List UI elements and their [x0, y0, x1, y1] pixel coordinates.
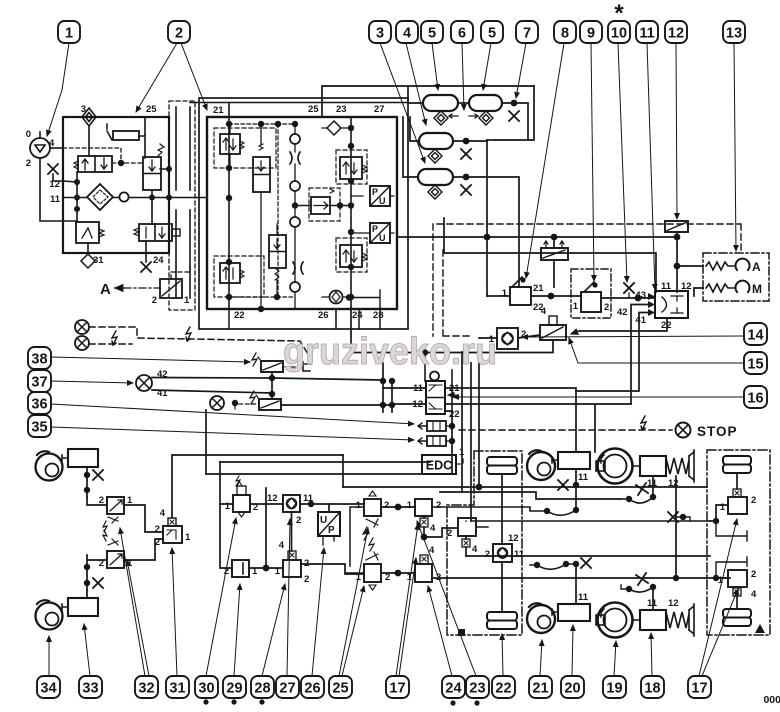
svg-text:22: 22 [234, 310, 245, 321]
callout 3 [369, 21, 391, 43]
drain diamond T1 [434, 111, 448, 125]
leader 25 a [339, 528, 368, 676]
tank feed riser [322, 86, 534, 117]
callout 24 [442, 676, 465, 698]
wire diamond down [88, 126, 90, 156]
svg-text:19: 19 [606, 681, 622, 697]
wire 25b right [381, 572, 415, 574]
svg-text:33: 33 [82, 681, 98, 697]
svg-text:16: 16 [747, 391, 763, 407]
valve 25a [356, 491, 390, 540]
mid dashed vertical [277, 124, 279, 298]
svg-text:4: 4 [160, 508, 166, 519]
svg-text:30: 30 [198, 681, 214, 697]
callout 18 [641, 676, 664, 698]
flash symbol stop [641, 416, 646, 430]
callout 7 [516, 21, 538, 43]
shuttle up wire [172, 455, 343, 518]
air dryer box [63, 117, 169, 253]
wire 23a right [466, 555, 710, 557]
callout 22 [492, 676, 515, 698]
front cylinder 1 [68, 449, 98, 467]
svg-text:1: 1 [502, 288, 508, 299]
svg-text:26: 26 [318, 310, 329, 321]
dot 36 [232, 400, 238, 406]
svg-text:20: 20 [564, 681, 580, 697]
front disc brake 2 [36, 600, 63, 629]
svg-text:24: 24 [352, 310, 363, 321]
valve 29 [224, 560, 258, 577]
callout 23 [466, 676, 489, 698]
rear disc brake top [527, 450, 555, 480]
wire to coupling bl [530, 564, 576, 565]
callout 12 [665, 21, 687, 43]
long bus y487 [343, 486, 707, 488]
check circle mid [290, 181, 300, 191]
svg-text:4: 4 [751, 589, 757, 600]
wire A valve up [171, 265, 190, 279]
T2 bleed X [509, 111, 519, 121]
EDC box [422, 447, 465, 474]
valve2 to shuttle [124, 539, 163, 560]
leader 27 [287, 519, 290, 676]
bus y253 [444, 253, 656, 292]
T4 left link [403, 117, 418, 177]
svg-text:EDC: EDC [426, 459, 452, 473]
BL overflow valve [220, 263, 244, 283]
svg-text:000: 000 [763, 694, 780, 706]
leader 25 b [342, 586, 364, 676]
front cylinder 2 [68, 598, 98, 616]
svg-text:U: U [379, 233, 386, 243]
svg-text:5: 5 [428, 26, 436, 42]
block top bus [229, 123, 295, 125]
svg-text:2: 2 [304, 574, 309, 585]
svg-text:1: 1 [407, 572, 413, 583]
valve 24a [407, 499, 442, 534]
svg-text:1: 1 [185, 532, 191, 543]
dashed pilot line [112, 162, 143, 164]
drain diamond 31 [81, 254, 95, 268]
PU converter bottom [370, 223, 390, 243]
TL valve wires [229, 124, 231, 168]
svg-text:4: 4 [541, 306, 547, 317]
callout 17a [386, 676, 409, 698]
flash symbol 1 [112, 331, 117, 345]
leader 11 [647, 43, 655, 290]
bottom circle diamond [330, 291, 343, 304]
hand brake lever valve [502, 277, 545, 313]
levelling valve left [485, 533, 525, 562]
leader 2 left [136, 43, 177, 112]
wire 12 down [676, 232, 678, 292]
pilot port right [172, 229, 180, 236]
leader 17b a [699, 519, 737, 676]
leader 31 [172, 548, 177, 676]
air tank T4 [418, 169, 453, 185]
tank T1-T2 link [458, 102, 469, 104]
leader 24 [428, 586, 452, 676]
drain diamond T2 [479, 111, 493, 125]
leader 2 right [181, 43, 207, 110]
svg-text:12: 12 [508, 533, 519, 544]
wire 9 to X [601, 297, 655, 299]
svg-text:2: 2 [175, 26, 183, 42]
callout 14 [744, 323, 767, 345]
svg-text:2: 2 [436, 500, 441, 511]
callout 35 [28, 415, 51, 437]
callout 34 [37, 676, 60, 698]
vertical 462 [461, 352, 463, 492]
port 21 drop [228, 103, 230, 118]
leader 14 [522, 336, 744, 337]
diamond top right [327, 121, 341, 135]
leader to compressor [47, 43, 69, 136]
svg-text:2: 2 [224, 566, 229, 577]
bracket symbol [303, 362, 311, 371]
dashed lamp line 2 [89, 343, 132, 345]
levelling valve rt [720, 489, 757, 514]
warning lamp 2 [75, 336, 89, 350]
outer enclosure of protection block [199, 98, 408, 329]
wire valve8top [553, 237, 555, 287]
svg-text:2: 2 [152, 295, 157, 306]
svg-text:2: 2 [604, 302, 609, 313]
air tank T2 [469, 95, 502, 111]
leader 7 [516, 43, 526, 98]
wire M row [694, 288, 703, 296]
svg-text:18: 18 [644, 681, 660, 697]
solenoid valve V1 [74, 156, 112, 172]
BL dashed box [214, 256, 264, 297]
air bellows right top [723, 456, 751, 473]
spring top [259, 144, 263, 150]
callout 21 [529, 676, 552, 698]
muffler dots [449, 423, 455, 429]
T3 bleed X [461, 149, 471, 159]
leader 17a b [399, 558, 416, 676]
svg-text:14: 14 [747, 328, 763, 344]
wire 29 to 28 [249, 567, 283, 569]
svg-text:21: 21 [532, 681, 548, 697]
svg-text:26: 26 [304, 681, 320, 697]
svg-text:12: 12 [668, 26, 684, 42]
callout 29 [223, 676, 246, 698]
svg-text:37: 37 [31, 375, 47, 391]
valve 28 [275, 540, 310, 585]
foot valve out 22 [445, 411, 452, 474]
row 36 wire [281, 404, 392, 406]
svg-text:1: 1 [275, 566, 281, 577]
svg-text:27: 27 [374, 104, 385, 115]
leader 5 [432, 43, 438, 90]
svg-text:M: M [752, 282, 762, 296]
svg-text:24: 24 [153, 255, 164, 266]
dashed channel between blocks [169, 101, 195, 310]
svg-text:1: 1 [65, 26, 73, 42]
leader 34 [48, 636, 50, 676]
vertical x452 upper [451, 370, 453, 411]
hose coupling top-right [620, 496, 653, 503]
leader 37 [51, 381, 133, 383]
T2 dot [511, 100, 518, 107]
arrow into foot valve [448, 394, 458, 396]
svg-text:32: 32 [138, 681, 154, 697]
supply line channel to tanks [190, 102, 408, 104]
dot 42 [635, 295, 642, 302]
clamp X bottom [636, 573, 648, 585]
T4 dot [463, 174, 470, 181]
BR overflow valve [340, 245, 367, 267]
svg-text:23: 23 [336, 104, 347, 115]
wire 25a right [381, 506, 415, 508]
right bus vertical [350, 117, 352, 309]
svg-text:41: 41 [635, 315, 646, 326]
wire cyl1 down [86, 467, 88, 497]
callout 9 [580, 21, 602, 43]
wire unloader down + bleed X 24 [145, 241, 147, 262]
air bellows right bottom [723, 609, 751, 626]
leader 29 [234, 584, 240, 676]
row 37 wire 41 [152, 390, 272, 393]
left bus vertical [228, 117, 230, 309]
callout 19 [603, 676, 626, 698]
svg-text:15: 15 [747, 357, 763, 373]
wire 22 to valve15 [579, 318, 667, 331]
callout 10 [608, 21, 630, 43]
svg-text:STOP: STOP [697, 424, 738, 439]
svg-text:43: 43 [635, 290, 646, 301]
center valve wires [295, 205, 351, 207]
svg-text:P: P [372, 187, 378, 197]
leader 38 [51, 357, 250, 362]
callout 30 [195, 676, 218, 698]
svg-text:11: 11 [661, 281, 672, 292]
main bus wire [63, 197, 207, 199]
black triangle [755, 624, 765, 633]
svg-text:2: 2 [751, 495, 756, 506]
svg-text:A: A [100, 281, 111, 298]
supply bus y237 [397, 236, 677, 238]
T3 right [453, 140, 487, 142]
spring left [74, 161, 78, 169]
svg-text:9: 9 [587, 26, 595, 42]
drain diamond top [82, 108, 96, 126]
svg-text:28: 28 [254, 681, 270, 697]
svg-text:17: 17 [691, 681, 707, 697]
spring brake chamber top [596, 449, 633, 484]
svg-text:22: 22 [495, 681, 511, 697]
valve rb wires [716, 557, 747, 578]
svg-text:2: 2 [296, 515, 301, 526]
bleed X bl [581, 558, 591, 568]
left bracket to valves 29-30 [220, 504, 233, 568]
svg-text:11: 11 [578, 592, 589, 603]
spring top [158, 144, 164, 156]
wire valve2 left [87, 555, 107, 590]
TR overflow valve [340, 157, 367, 179]
svg-text:12: 12 [668, 598, 679, 609]
leader 28 [262, 584, 285, 676]
wire 25a left [345, 507, 364, 573]
wire 14-15 [518, 335, 540, 338]
PU wires [351, 196, 394, 233]
bleed X [558, 480, 568, 490]
block bottom port 24 link [349, 290, 380, 308]
callout 31 [166, 676, 189, 698]
riser to lever valve [486, 140, 488, 296]
wire 15 bottom [351, 340, 553, 353]
leader 10 [618, 43, 627, 282]
callout 33 [79, 676, 102, 698]
vertical 206 [205, 410, 207, 474]
svg-text:3: 3 [376, 26, 384, 42]
solenoid valve 38 [252, 353, 283, 372]
T1 left link [408, 86, 423, 103]
svg-text:38: 38 [31, 352, 47, 368]
wire A row [677, 265, 703, 267]
callout 36 [28, 392, 51, 414]
dashed from valve38 [285, 366, 299, 368]
leader 5b [483, 43, 491, 90]
throttle top [290, 152, 300, 164]
leader 17b b [702, 589, 738, 676]
svg-text:P: P [328, 525, 335, 536]
T2 right link [502, 103, 528, 140]
leader 6 [462, 43, 464, 110]
bottom bus [229, 296, 295, 298]
leader 12 [676, 43, 677, 219]
riser right down [495, 86, 534, 140]
svg-text:25: 25 [146, 104, 157, 115]
svg-text:U: U [320, 515, 327, 526]
mid verticals [383, 363, 392, 412]
svg-text:25: 25 [332, 681, 348, 697]
svg-text:12: 12 [412, 399, 423, 410]
callout 26 [301, 676, 324, 698]
hose coupling bottom-left [534, 561, 569, 569]
wires 2-2 upper [260, 124, 262, 309]
channel inner walls [176, 107, 190, 298]
svg-text:10: 10 [611, 26, 627, 42]
flash symbol 2 [186, 327, 191, 341]
clamp X top [636, 483, 648, 495]
wire compressor to dryer [50, 147, 63, 149]
muffler 2 [418, 436, 446, 446]
leader 36 [51, 404, 414, 424]
dot under 23 [474, 700, 479, 705]
svg-text:5: 5 [488, 26, 496, 42]
callout 25 [329, 676, 352, 698]
solenoid component 12 [665, 221, 688, 232]
svg-text:2: 2 [521, 329, 526, 340]
heater switch [107, 124, 112, 140]
leader 33 [84, 624, 90, 676]
svg-text:31: 31 [169, 681, 185, 697]
pressure regulator [76, 222, 104, 243]
wire row y510 [432, 507, 547, 511]
wire heater [139, 135, 145, 158]
callout 16 [744, 386, 767, 408]
cyl bottom wire up [575, 564, 577, 604]
callout 37 [28, 370, 51, 392]
wires lower mid [276, 224, 278, 297]
leader 32 a [120, 528, 145, 676]
TL overflow valve [220, 134, 244, 154]
svg-text:4: 4 [403, 26, 411, 42]
air tank T3 [419, 133, 453, 149]
svg-text:1: 1 [356, 500, 362, 511]
wire UP up [328, 504, 330, 512]
wire port 12 [53, 174, 63, 181]
heater resistor [113, 131, 139, 140]
svg-text:1: 1 [225, 501, 231, 512]
levelling valve wire down [501, 562, 503, 612]
dot under 24 [450, 700, 455, 705]
solenoid valve 36-37 [250, 391, 281, 410]
leader 3 [380, 43, 425, 163]
callout 32 [135, 676, 158, 698]
vertical 471 [470, 363, 472, 521]
svg-text:29: 29 [226, 681, 242, 697]
wire unloader top [151, 198, 153, 224]
valve1 to shuttle [124, 505, 163, 532]
leader 26 [312, 548, 324, 676]
lamp 36 [210, 396, 224, 410]
dot under 29 [231, 699, 236, 704]
bleed X cyl2 [93, 578, 103, 588]
dashed lamp line 1 [89, 327, 308, 354]
T3 left link [410, 117, 419, 141]
svg-text:24: 24 [445, 681, 461, 697]
callout 5b [481, 21, 503, 43]
cab dashed boundary [437, 224, 741, 254]
small valve 8-top [541, 241, 568, 260]
hose coupling bottom-right [626, 586, 653, 592]
dot under 28 [259, 699, 264, 704]
junction dots dryer [74, 179, 80, 185]
left dash-dot suspension box [447, 451, 522, 635]
leader 17a [396, 524, 418, 676]
wire lever valve left [487, 295, 510, 297]
wire lever valve right [531, 295, 581, 297]
svg-text:2: 2 [26, 158, 31, 169]
2-2 valve lower mid [269, 235, 286, 280]
check down [291, 512, 293, 551]
svg-text:*: * [614, 0, 624, 27]
wire governor down [151, 190, 153, 198]
PU converter top [370, 186, 390, 206]
svg-text:6: 6 [458, 26, 466, 42]
leader 4 [406, 43, 426, 125]
wire 30 to checkvalve [250, 503, 283, 505]
svg-text:2: 2 [155, 537, 160, 548]
filter [87, 184, 113, 210]
rear cylinder bottom [558, 604, 590, 621]
2-2 valve upper mid [253, 144, 270, 192]
valve 9 [573, 282, 610, 313]
bleed X right [668, 512, 678, 522]
dash-dot line A [124, 287, 160, 289]
foot brake valve [412, 372, 460, 421]
bleed X cyl1 [93, 470, 103, 480]
svg-text:2: 2 [99, 495, 104, 506]
drain diamond T3 [428, 149, 442, 163]
wire 24a to 23a [424, 528, 458, 537]
svg-text:4: 4 [472, 544, 478, 555]
warning lamp 1 [75, 320, 89, 334]
svg-text:25: 25 [308, 104, 319, 115]
